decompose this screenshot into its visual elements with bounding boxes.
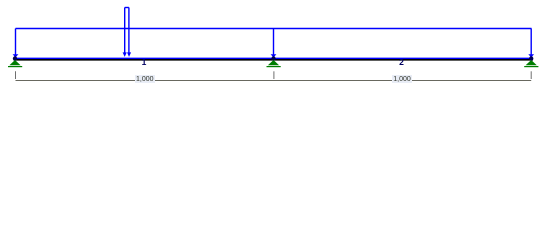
- dimension text 1,000 (span 2): [392, 75, 413, 82]
- element label 2: [391, 58, 412, 67]
- point load P1 left shaft: [124, 8, 126, 55]
- load arrow shaft at node N3: [530, 29, 532, 56]
- node N2 marker: [271, 56, 275, 60]
- node N1 marker: [13, 56, 17, 60]
- distributed load top line: [16, 28, 532, 30]
- support S1 base bar: [8, 66, 22, 68]
- load arrowhead at node N3: [528, 54, 534, 57]
- load arrow shaft at node N2: [273, 29, 275, 56]
- support S3 pin triangle: [526, 60, 537, 65]
- point load P1 left arrowhead: [123, 52, 127, 57]
- load arrowhead at node N1: [13, 54, 19, 57]
- support S2 pin triangle: [268, 60, 279, 65]
- support S2 base bar: [267, 66, 281, 68]
- dimension line: [16, 80, 532, 82]
- load arrow shaft at node N1: [15, 29, 17, 56]
- support S3 base bar: [524, 66, 538, 68]
- element label 1: [134, 58, 155, 67]
- support S1 pin triangle: [9, 60, 20, 65]
- dimension text 1,000 (span 1): [135, 75, 156, 82]
- dimension tick at node N2: [273, 71, 275, 79]
- point load P1 hollow arrow top cap: [125, 7, 129, 9]
- beam axis blue line: [14, 57, 534, 59]
- dimension tick at node N1: [15, 71, 17, 79]
- dimension tick at node N3: [530, 71, 532, 79]
- load arrowhead at node N2: [271, 54, 277, 57]
- beam element thick black line: [14, 59, 534, 61]
- point load P1 right arrowhead: [127, 52, 131, 57]
- node N3 marker: [529, 56, 533, 60]
- point load P1 right shaft: [128, 8, 130, 55]
